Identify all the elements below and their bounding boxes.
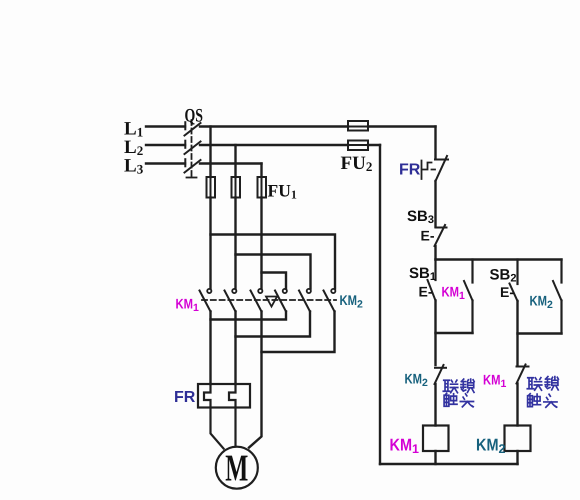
svg-text:KM2: KM2 <box>476 436 506 457</box>
svg-text:E-: E- <box>419 284 433 300</box>
contactor KM2 aux contact NO <box>553 260 562 334</box>
svg-text:FR: FR <box>174 389 196 406</box>
pushbutton SB1 NO <box>428 260 436 301</box>
wire L3 to fuse column 3 <box>200 162 262 164</box>
wire L2 feed <box>146 144 185 146</box>
wire KM1 contact 1 to FR heater 1 <box>209 312 211 385</box>
svg-text:KM1: KM1 <box>442 284 466 303</box>
KM1-KM2 mechanical linkage dashed <box>202 299 336 301</box>
svg-text:E-: E- <box>500 284 514 300</box>
wire to KM1 coil <box>434 384 436 426</box>
wire phase A drop <box>209 127 211 178</box>
bottom return wire <box>380 463 518 465</box>
wire phase B to KM2 contact 5 <box>236 255 311 289</box>
svg-text:KM2: KM2 <box>340 292 364 311</box>
FR heater element 1 <box>204 384 224 449</box>
wire junction contact1-contact4 <box>211 312 287 320</box>
contactor KM1 aux contact NO <box>464 260 473 334</box>
wire phase A to KM2 contact 6 <box>211 235 336 289</box>
wire KM1 contact 2 to FR heater 2 <box>234 312 236 385</box>
FR heater element 2 <box>229 384 236 447</box>
svg-text:SB2: SB2 <box>490 267 517 285</box>
contactor KM2 main contact 6 <box>324 289 336 312</box>
contactor KM1 main contact 2 <box>225 289 237 312</box>
control rail top <box>436 258 562 260</box>
wire phase C to KM2 contact 4 <box>262 273 287 289</box>
svg-text:SB1: SB1 <box>409 265 436 283</box>
wire junction contact3-contact6 <box>262 312 335 353</box>
wire SB3 to rail <box>434 246 436 260</box>
switch QS pole 1 <box>185 122 201 135</box>
svg-text:KM1: KM1 <box>176 296 200 315</box>
svg-text:KM2: KM2 <box>530 293 554 312</box>
wire SB2 down <box>516 301 518 365</box>
pushbutton SB2 NO <box>510 260 518 302</box>
svg-text:FU2: FU2 <box>341 153 373 174</box>
label interlock text right <box>527 377 558 408</box>
svg-text:KM1: KM1 <box>390 436 420 457</box>
fuse FU1 pole 1 <box>207 177 216 198</box>
thermal relay FR box <box>198 384 250 408</box>
label interlock text left <box>443 379 474 407</box>
motor M circle <box>216 447 258 489</box>
svg-text:FU1: FU1 <box>268 181 297 202</box>
svg-text:M: M <box>225 448 248 490</box>
contactor KM2 main contact 4 <box>275 289 287 312</box>
contactor KM1 interlock NC contact <box>517 365 529 384</box>
fuse FU1 pole 3 <box>258 177 267 198</box>
contactor KM1 main contact 1 <box>200 289 212 312</box>
wire junction contact2-contact5 <box>236 312 311 337</box>
svg-text:QS: QS <box>185 106 204 127</box>
wire phase C drop <box>260 164 262 178</box>
svg-text:KM2: KM2 <box>405 371 429 390</box>
fuse FU2 upper <box>348 121 368 131</box>
switch QS pole 2 <box>185 141 201 154</box>
wire KM2 coil to bottom <box>516 451 518 464</box>
wire phase A to KM1 contact 1 <box>209 198 211 289</box>
QS linkage dashed <box>187 120 197 178</box>
wire SB1 down <box>434 301 436 366</box>
wire KM2 aux join <box>518 332 562 334</box>
wire KM1 coil to bottom <box>434 451 436 464</box>
contactor KM2 main contact 5 <box>299 289 311 312</box>
switch QS pole 3 <box>185 159 201 172</box>
wire to KM2 coil <box>516 384 518 426</box>
wire FR to SB3 <box>434 181 436 227</box>
pushbutton SB3 NC <box>435 225 447 246</box>
wire L3 feed <box>146 162 185 164</box>
wire phase C to KM1 contact 3 <box>260 198 262 289</box>
wire KM1 aux join <box>436 332 473 334</box>
fuse FU2 lower <box>348 141 368 151</box>
coil KM2 <box>505 426 531 452</box>
svg-text:SB3: SB3 <box>407 208 434 226</box>
FR actuator symbol <box>422 161 436 180</box>
wire KM1 contact 3 to motor <box>249 312 262 448</box>
wire phase B to KM1 contact 2 <box>234 198 236 289</box>
svg-text:FR: FR <box>399 162 421 179</box>
svg-text:KM1: KM1 <box>483 372 507 391</box>
coil KM1 <box>423 426 449 452</box>
wire L1 to FU2 row <box>200 125 436 127</box>
contactor KM2 interlock NC contact <box>435 365 447 384</box>
wire L1 feed <box>146 125 185 127</box>
linkage triangle marker <box>266 297 277 307</box>
left control rail <box>379 145 381 464</box>
svg-text:L3: L3 <box>124 156 144 177</box>
wire phase B drop <box>234 145 236 177</box>
fuse FU1 pole 2 <box>232 177 241 198</box>
contactor KM1 main contact 3 <box>251 289 263 312</box>
wire L2 to FU2 row <box>200 144 380 146</box>
wire L1 down to FR contact <box>434 127 436 160</box>
svg-text:E-: E- <box>421 228 435 244</box>
FR NC contact <box>435 156 448 181</box>
